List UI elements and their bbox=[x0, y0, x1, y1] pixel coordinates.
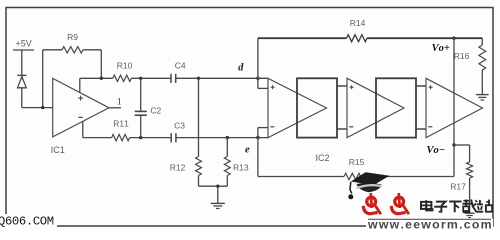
svg-text:IC2: IC2 bbox=[315, 153, 329, 163]
svg-text:R17: R17 bbox=[450, 182, 466, 192]
svg-text:R12: R12 bbox=[170, 163, 186, 173]
svg-text:C3: C3 bbox=[174, 120, 185, 130]
svg-text:C4: C4 bbox=[175, 60, 186, 70]
svg-text:R9: R9 bbox=[67, 32, 78, 42]
svg-text:R15: R15 bbox=[349, 157, 365, 167]
svg-text:R10: R10 bbox=[117, 60, 133, 70]
svg-text:+5V: +5V bbox=[15, 39, 31, 49]
svg-text:d: d bbox=[238, 63, 244, 74]
svg-text:IC1: IC1 bbox=[51, 145, 65, 155]
svg-text:www.eeworm.com: www.eeworm.com bbox=[367, 218, 493, 230]
svg-text:Vo+: Vo+ bbox=[432, 43, 450, 54]
svg-text:C2: C2 bbox=[150, 106, 161, 116]
svg-text:R11: R11 bbox=[113, 118, 129, 128]
svg-text:R13: R13 bbox=[233, 163, 249, 173]
svg-text:1: 1 bbox=[117, 98, 122, 108]
svg-text:R14: R14 bbox=[350, 18, 366, 28]
svg-text:R16: R16 bbox=[454, 51, 470, 61]
svg-text:Q606.COM: Q606.COM bbox=[0, 215, 54, 229]
svg-text:e: e bbox=[245, 145, 250, 156]
svg-text:Vo−: Vo− bbox=[426, 145, 445, 156]
